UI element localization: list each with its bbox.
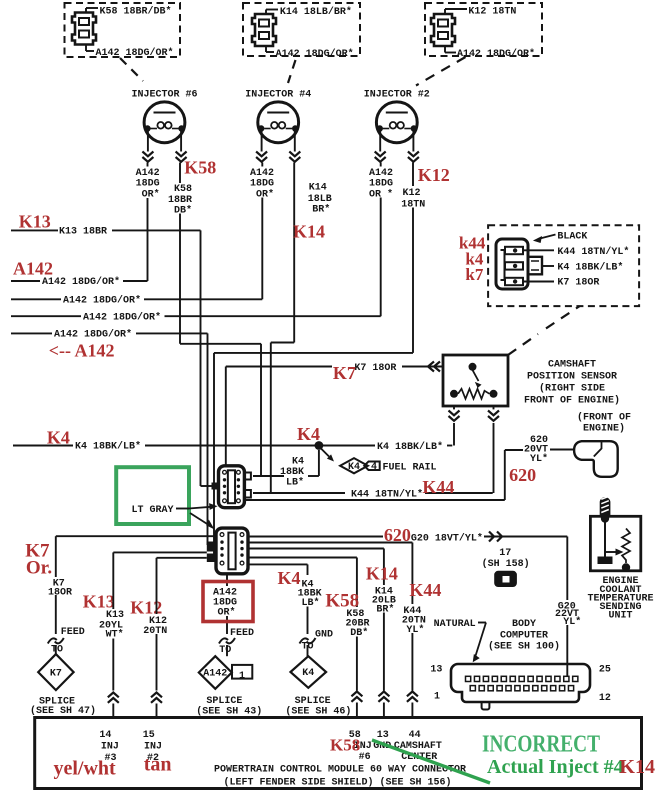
svg-text:K13: K13 bbox=[83, 592, 115, 612]
svg-text:A142 18DG/OR*: A142 18DG/OR* bbox=[54, 329, 132, 341]
svg-text:K44 18TN/YL*: K44 18TN/YL* bbox=[557, 246, 629, 258]
svg-text:SPLICE: SPLICE bbox=[206, 696, 242, 707]
svg-text:INJECTOR #6: INJECTOR #6 bbox=[131, 89, 197, 100]
svg-text:(SEE SH 43): (SEE SH 43) bbox=[196, 706, 262, 718]
svg-text:1: 1 bbox=[239, 671, 245, 682]
svg-text:20TN: 20TN bbox=[143, 626, 167, 637]
svg-text:1: 1 bbox=[434, 691, 440, 702]
svg-text:14: 14 bbox=[99, 730, 111, 741]
svg-text:YL*: YL* bbox=[530, 453, 548, 465]
svg-text:k7: k7 bbox=[465, 265, 483, 284]
svg-text:K58 18BR/DB*: K58 18BR/DB* bbox=[100, 5, 172, 17]
svg-text:UNIT: UNIT bbox=[608, 611, 632, 622]
svg-text:BODY: BODY bbox=[512, 619, 536, 630]
svg-text:K44 18TN/YL*: K44 18TN/YL* bbox=[351, 489, 423, 501]
svg-text:K4: K4 bbox=[47, 428, 70, 448]
svg-text:INJ: INJ bbox=[101, 742, 119, 753]
svg-text:K58: K58 bbox=[184, 158, 216, 178]
svg-text:K4: K4 bbox=[302, 668, 314, 679]
svg-text:OR*: OR* bbox=[142, 188, 160, 200]
svg-text:A142 18DG/OR*: A142 18DG/OR* bbox=[96, 47, 174, 59]
svg-text:TO: TO bbox=[219, 645, 231, 656]
svg-text:FRONT OF ENGINE): FRONT OF ENGINE) bbox=[524, 394, 620, 406]
svg-text:LB*: LB* bbox=[302, 597, 320, 609]
svg-text:A142: A142 bbox=[13, 259, 53, 279]
svg-text:Actual Inject #4: Actual Inject #4 bbox=[487, 756, 624, 778]
svg-text:25: 25 bbox=[599, 664, 611, 675]
svg-text:COMPUTER: COMPUTER bbox=[500, 630, 548, 641]
svg-text:A142 18DG/OR*: A142 18DG/OR* bbox=[83, 311, 161, 323]
svg-text:YL*: YL* bbox=[563, 616, 581, 628]
svg-text:K13: K13 bbox=[19, 212, 51, 232]
svg-text:44: 44 bbox=[409, 730, 421, 741]
svg-text:A142 18DG/OR*: A142 18DG/OR* bbox=[276, 48, 354, 60]
svg-text:18DG: 18DG bbox=[369, 179, 393, 190]
svg-text:INJECTOR #2: INJECTOR #2 bbox=[364, 89, 430, 100]
svg-text:18TN: 18TN bbox=[401, 199, 425, 210]
svg-text:BLACK: BLACK bbox=[557, 232, 587, 243]
svg-text:K44: K44 bbox=[422, 477, 454, 497]
svg-text:OR*: OR* bbox=[217, 606, 235, 618]
svg-text:FUEL RAIL: FUEL RAIL bbox=[383, 462, 437, 473]
svg-text:INCORRECT: INCORRECT bbox=[482, 731, 600, 757]
svg-text:K14: K14 bbox=[293, 222, 325, 242]
svg-text:(FRONT OF: (FRONT OF bbox=[577, 412, 631, 424]
svg-text:yel/wht: yel/wht bbox=[54, 758, 117, 780]
svg-text:G20 18VT/YL*: G20 18VT/YL* bbox=[411, 532, 483, 544]
svg-text:K12: K12 bbox=[418, 165, 450, 185]
svg-text:A142: A142 bbox=[369, 168, 393, 179]
svg-text:12: 12 bbox=[599, 693, 611, 704]
svg-text:K7: K7 bbox=[333, 363, 356, 383]
svg-text:A142 18DG/OR*: A142 18DG/OR* bbox=[42, 276, 120, 288]
svg-text:18BR: 18BR bbox=[168, 195, 192, 206]
svg-text:WT*: WT* bbox=[106, 629, 124, 641]
svg-text:(SH 158): (SH 158) bbox=[482, 558, 530, 570]
svg-text:(SEE SH 46): (SEE SH 46) bbox=[285, 706, 351, 718]
svg-text:A142 18DG/OR*: A142 18DG/OR* bbox=[457, 48, 535, 60]
svg-text:DB*: DB* bbox=[350, 627, 368, 639]
svg-text:A142: A142 bbox=[136, 168, 160, 179]
svg-text:LB*: LB* bbox=[286, 477, 304, 489]
svg-text:K13: K13 bbox=[106, 610, 124, 621]
svg-text:Or.: Or. bbox=[26, 558, 52, 579]
svg-text:GND: GND bbox=[315, 629, 333, 640]
svg-text:13: 13 bbox=[377, 730, 389, 741]
svg-text:FEED: FEED bbox=[230, 628, 254, 639]
svg-text:K4 18BK/LB*: K4 18BK/LB* bbox=[377, 441, 443, 453]
svg-text:A142: A142 bbox=[203, 669, 227, 680]
svg-text:15: 15 bbox=[143, 730, 155, 741]
svg-text:ENGINE): ENGINE) bbox=[583, 423, 625, 435]
svg-text:BR*: BR* bbox=[312, 203, 330, 215]
svg-text:K13 18BR: K13 18BR bbox=[59, 227, 107, 238]
svg-text:K14: K14 bbox=[309, 183, 327, 194]
svg-text:K12 18TN: K12 18TN bbox=[468, 7, 516, 18]
svg-text:620: 620 bbox=[509, 465, 536, 485]
svg-text:K4: K4 bbox=[297, 424, 320, 444]
svg-text:K4: K4 bbox=[278, 568, 301, 588]
svg-text:K44: K44 bbox=[409, 580, 441, 600]
svg-text:K14 18LB/BR*: K14 18LB/BR* bbox=[280, 6, 352, 18]
svg-text:POSITION SENSOR: POSITION SENSOR bbox=[527, 372, 617, 383]
svg-text:OR *: OR * bbox=[369, 188, 393, 200]
svg-text:18OR: 18OR bbox=[48, 587, 72, 598]
svg-text:13: 13 bbox=[430, 664, 442, 675]
svg-text:FEED: FEED bbox=[61, 627, 85, 638]
svg-text:K14: K14 bbox=[619, 756, 655, 778]
svg-text:K7 18OR: K7 18OR bbox=[557, 277, 599, 288]
svg-text:INJECTOR #4: INJECTOR #4 bbox=[245, 89, 311, 100]
svg-text:BR*: BR* bbox=[376, 603, 394, 615]
svg-text:YL*: YL* bbox=[406, 624, 424, 636]
svg-text:17: 17 bbox=[499, 548, 511, 559]
svg-text:(SEE SH 47): (SEE SH 47) bbox=[30, 705, 96, 717]
svg-text:K7 18OR: K7 18OR bbox=[354, 363, 396, 374]
svg-text:TO: TO bbox=[51, 644, 63, 655]
svg-text:18DG: 18DG bbox=[136, 179, 160, 190]
svg-text:NATURAL: NATURAL bbox=[434, 619, 476, 630]
svg-text:18LB: 18LB bbox=[308, 194, 332, 205]
svg-text:K58: K58 bbox=[330, 736, 360, 755]
svg-text:OR*: OR* bbox=[256, 188, 274, 200]
svg-text:SPLICE: SPLICE bbox=[295, 696, 331, 707]
svg-text:K7: K7 bbox=[50, 668, 62, 679]
svg-text:K12: K12 bbox=[403, 188, 421, 199]
svg-text:LT GRAY: LT GRAY bbox=[132, 505, 174, 516]
svg-text:K58: K58 bbox=[174, 184, 192, 195]
svg-text:CAMSHAFT: CAMSHAFT bbox=[548, 360, 596, 371]
svg-text:K4 18BK/LB*: K4 18BK/LB* bbox=[75, 441, 141, 453]
svg-text:A142: A142 bbox=[250, 168, 274, 179]
svg-text:18BK: 18BK bbox=[280, 467, 304, 478]
svg-text:K4: K4 bbox=[292, 456, 304, 467]
svg-text:K4: K4 bbox=[348, 462, 360, 473]
svg-text:tan: tan bbox=[144, 754, 172, 776]
svg-text:POWERTRAIN CONTROL MODULE 60 W: POWERTRAIN CONTROL MODULE 60 WAY CONNECT… bbox=[214, 765, 466, 776]
svg-text:#6: #6 bbox=[359, 752, 371, 763]
svg-text:DB*: DB* bbox=[174, 205, 192, 217]
svg-text:K58: K58 bbox=[325, 591, 359, 612]
svg-text:(LEFT FENDER SIDE SHIELD) (SEE: (LEFT FENDER SIDE SHIELD) (SEE SH 156) bbox=[223, 776, 451, 788]
svg-text:A142 18DG/OR*: A142 18DG/OR* bbox=[63, 295, 141, 307]
svg-text:INJ: INJ bbox=[144, 742, 162, 753]
svg-text:(RIGHT SIDE: (RIGHT SIDE bbox=[539, 383, 605, 395]
svg-text:<-- A142: <-- A142 bbox=[49, 341, 115, 361]
svg-text:18DG: 18DG bbox=[250, 179, 274, 190]
svg-text:K14: K14 bbox=[366, 564, 398, 584]
svg-text:(SEE SH 100): (SEE SH 100) bbox=[488, 641, 560, 653]
svg-text:4: 4 bbox=[371, 462, 377, 473]
svg-text:K4 18BK/LB*: K4 18BK/LB* bbox=[557, 261, 623, 273]
